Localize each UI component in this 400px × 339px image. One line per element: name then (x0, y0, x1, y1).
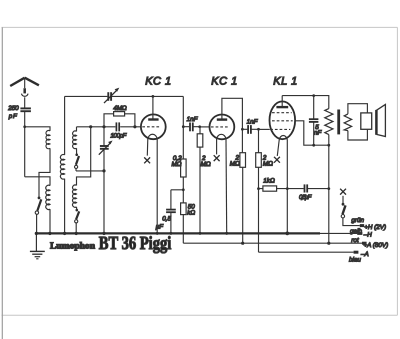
speaker cone (375, 110, 378, 135)
svg-text:BT 36 Piggi: BT 36 Piggi (99, 234, 172, 254)
svg-text:MΩ: MΩ (263, 161, 273, 168)
wire tube V2 filament stub (216, 139, 218, 154)
node +A junctions (241, 242, 244, 245)
wire capacitor 0,5uF branch (171, 190, 183, 234)
label 0,2MOhm (172, 155, 183, 168)
svg-text:MΩ: MΩ (230, 160, 240, 167)
wire tube V1 top lead (152, 96, 154, 119)
tube V2 grid dashes (211, 126, 230, 128)
coil L2 tuning (60, 155, 64, 180)
wire screen net to +A rail (328, 145, 330, 243)
wire resistor to junction (182, 177, 184, 203)
label 250pF (7, 105, 19, 120)
node grid3 junction (257, 128, 260, 131)
svg-text:1kΩ: 1kΩ (263, 178, 275, 185)
tube V1 grid dashes (142, 126, 161, 128)
transformer T1 core (337, 110, 340, 135)
resistor 4MOhm grid leak (104, 114, 135, 127)
node grid net junctions (89, 125, 92, 128)
wire tube V3 cathode to bus (286, 140, 288, 234)
coil L4 wave band section (73, 185, 77, 207)
wire capacitor 0,5uF output (287, 188, 329, 190)
variable capacitor C2 tuning gang 2 (99, 143, 111, 155)
svg-text:+H (2V): +H (2V) (364, 224, 386, 231)
svg-text:0,5µF: 0,5µF (299, 194, 313, 201)
wire KL1 anode top bus (282, 96, 329, 109)
terminal +H (360, 224, 364, 227)
node anode net junction (182, 125, 185, 128)
svg-text:100pF: 100pF (110, 132, 127, 139)
capacitor 250pF (20, 108, 31, 111)
wire coupling C4 (242, 128, 258, 130)
wire 50kOhm to +A rail (182, 215, 184, 244)
capacitor 1nF coupling second (248, 125, 251, 134)
heater mark X1 (144, 157, 150, 163)
wire riser of tuning coil L2 (64, 96, 66, 154)
tube V2 filament (217, 134, 226, 139)
resistor 2MOhm anode load V2 (241, 129, 243, 152)
svg-text:blau: blau (349, 257, 361, 264)
resistor 1kOhm (259, 188, 288, 190)
label 2MOhm b (230, 154, 240, 167)
wire grid bus top (65, 95, 184, 97)
svg-text:Lumophon: Lumophon (50, 240, 95, 250)
label 2MOhm a (201, 155, 211, 168)
ground bus (36, 232, 320, 234)
tube V3 grid2 dashes (272, 120, 293, 122)
svg-text:0,5: 0,5 (162, 216, 171, 223)
node screen net junctions (312, 144, 315, 147)
terminal -A (354, 251, 359, 254)
label 2MOhm c (262, 154, 273, 167)
wire anode chain corner (182, 96, 184, 159)
tube V1 anode plate (148, 118, 158, 120)
tube V3 KL1 envelope (270, 101, 296, 139)
wire to KL1 grid (259, 128, 270, 130)
wire tube V3 filament stub (277, 140, 279, 156)
switch S4 on-off (341, 196, 360, 226)
wire tube V1 cathode to bus (156, 139, 158, 234)
svg-text:kΩ: kΩ (187, 209, 195, 216)
wire antenna branch lower (25, 177, 50, 186)
wire tube V2 cathode to bus (225, 139, 228, 233)
svg-text:nF: nF (314, 130, 323, 137)
svg-text:gelb: gelb (350, 228, 362, 235)
svg-text:KL 1: KL 1 (273, 76, 297, 88)
wire coil L4 branch (77, 127, 91, 186)
node 1kOhm left junction (257, 187, 260, 190)
label 0,5uF (156, 216, 172, 231)
tube V2 KC1 envelope (210, 115, 235, 140)
capacitor 100pF grid (116, 122, 119, 131)
svg-text:MΩ: MΩ (172, 161, 182, 168)
resistor 0,2MOhm (181, 159, 187, 177)
capacitor 5nF tone (309, 119, 319, 122)
ground symbol (30, 233, 45, 258)
wire 5nF branch (313, 96, 315, 146)
antenna plug connector (22, 88, 29, 107)
wire to tube V2 grid (200, 126, 210, 128)
variable capacitor C1 tuning gang 1 (104, 90, 117, 103)
tube V3 grid3 dashes (270, 128, 290, 130)
node grid2 junction (198, 125, 201, 128)
heater mark X2 (214, 155, 220, 161)
label 50kOhm (187, 204, 195, 217)
coil L1b antenna coupling bottom (46, 185, 50, 209)
svg-text:MΩ: MΩ (201, 161, 211, 168)
svg-text:1nF: 1nF (247, 118, 259, 125)
transformer T1 secondary (344, 114, 351, 131)
resistor 50kOhm (181, 203, 187, 215)
svg-text:rot: rot (351, 237, 359, 244)
wire coupling C3 (183, 126, 199, 128)
svg-text:+A (80V): +A (80V) (363, 242, 388, 249)
svg-text:pF: pF (8, 113, 18, 120)
switch S2 (75, 148, 80, 171)
tube V3 filament (279, 136, 287, 140)
capacitor 0,5uF output bypass (305, 184, 308, 192)
wire coil L3 top corner (76, 127, 78, 132)
tube V3 anode plate (276, 106, 288, 108)
node coupling 2 left junction (241, 128, 244, 131)
wire coil L1a bottom to switch S1 (39, 148, 50, 197)
wire switch S2 to var cap line (76, 170, 104, 172)
left scan edge line (1, 27, 3, 339)
svg-text:–H: –H (363, 231, 373, 238)
coil L1a antenna coupling top (46, 130, 50, 148)
wire secondary loop top (348, 104, 368, 114)
svg-text:1nF: 1nF (187, 116, 199, 123)
node tube V1 top junction (152, 95, 155, 98)
node decoupling junction (182, 188, 185, 191)
svg-text:4MΩ: 4MΩ (113, 105, 127, 112)
svg-text:KC 1: KC 1 (145, 76, 171, 88)
switch S3 (75, 207, 80, 234)
tube V1 filament (148, 134, 157, 139)
wire coil L1b to bus (49, 209, 51, 233)
node bus junctions (35, 232, 289, 236)
node cathode resistor junction (286, 187, 289, 190)
wire secondary loop bottom (348, 130, 368, 140)
node var cap junction (102, 169, 105, 172)
svg-text:–A: –A (360, 251, 369, 258)
tube V2 anode plate (217, 118, 227, 120)
transformer T1 primary (325, 109, 333, 135)
heater mark X3 (274, 157, 280, 163)
wire tube V3 top lead (281, 96, 283, 107)
heater mark X4 (340, 189, 346, 195)
capacitor 1nF coupling first (190, 123, 193, 132)
wire coil L2 to bus (64, 179, 66, 234)
node antenna junction (23, 125, 26, 128)
node 5nF top junction (312, 94, 315, 97)
capacitor 0,5uF decoupling (166, 210, 176, 213)
resistor 2MOhm grid leak V2 (199, 127, 201, 134)
wire tube V2 anode over the top (222, 98, 243, 129)
terminal -H (357, 232, 362, 235)
wire KL1 screen grid (295, 121, 329, 145)
terminal +A (362, 242, 367, 245)
wire primary bottom (328, 135, 330, 146)
wire to coil L1a (25, 127, 50, 131)
switch S1 (35, 197, 41, 234)
tube V1 KC1 envelope (141, 114, 166, 139)
antenna (10, 78, 39, 88)
wire variable cap C2 branch (103, 127, 105, 234)
label 5nF (314, 124, 323, 137)
svg-text:250: 250 (7, 105, 19, 112)
rail -A (259, 251, 354, 253)
svg-text:grün: grün (351, 217, 364, 224)
speaker driver (361, 113, 372, 129)
svg-text:KC 1: KC 1 (211, 76, 237, 88)
tube V3 grid1 dashes (272, 112, 292, 114)
coil L3 wave band section (73, 131, 77, 149)
svg-text:µF: µF (156, 223, 165, 230)
resistor 2MOhm grid leak KL1 (258, 129, 260, 152)
wire antenna down (24, 112, 26, 177)
wire tube V1 filament stub (146, 139, 149, 156)
rail +A (183, 242, 362, 244)
wire secondary circuit top (77, 126, 141, 128)
node 0,5uF junctions (327, 187, 330, 190)
